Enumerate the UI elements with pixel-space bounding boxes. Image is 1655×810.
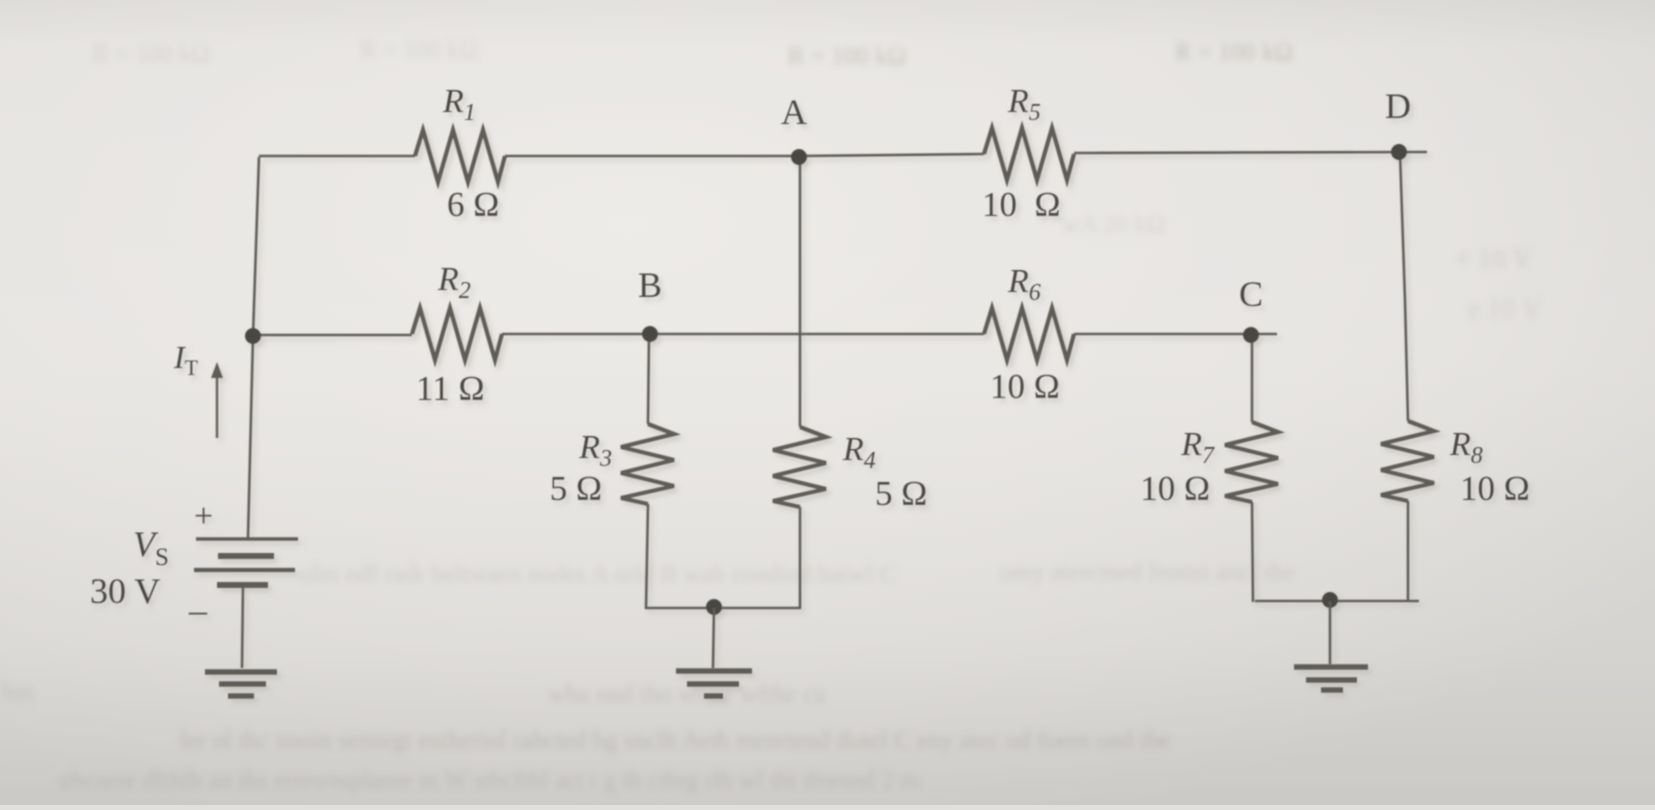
svg-text:+: +: [194, 498, 213, 535]
svg-text:R = 100 kΩ: R = 100 kΩ: [360, 37, 478, 64]
svg-text:omy aterctned fromn ancl the: omy aterctned fromn ancl the: [1000, 559, 1294, 586]
svg-text:10 Ω: 10 Ω: [990, 367, 1060, 406]
wire: stub from right bottom junction down to ground: [1329, 601, 1332, 664]
wire: right bottom rail joining R7 and R8 branches: [1255, 600, 1419, 603]
node B: [642, 326, 658, 342]
ground (battery): [205, 672, 277, 696]
resistor R6: [984, 308, 1074, 360]
resistor R2: [412, 308, 502, 360]
svg-text:+ 10 V: + 10 V: [1455, 244, 1533, 275]
svg-text:B: B: [638, 265, 662, 305]
svg-text:R = 100 kΩ: R = 100 kΩ: [92, 41, 210, 68]
svg-text:R = 100 kΩ: R = 100 kΩ: [1175, 39, 1293, 66]
wire: battery − terminal down to ground: [242, 585, 243, 668]
wire: middle rail right segment (R6 to node C): [1074, 333, 1277, 336]
svg-text:ehcame dfthlb an ths erresrnqd: ehcame dfthlb an ths erresrnqdanse tn W …: [60, 767, 920, 794]
svg-text:ler ol thc nnoin sennrgt enthe: ler ol thc nnoin sennrgt entheriol rahct…: [180, 727, 1170, 754]
wire: R7 bottom to right bottom rail: [1252, 502, 1253, 602]
svg-text:10 Ω: 10 Ω: [982, 185, 1061, 224]
wire: stub from mid bottom junction down to ground: [713, 608, 714, 668]
wire: vertical branch from node B down to R3: [648, 335, 649, 424]
svg-text:10 Ω: 10 Ω: [1140, 469, 1210, 508]
wire: middle rail left segment (left rail to R2): [253, 334, 412, 337]
svg-text:5 Ω: 5 Ω: [550, 469, 602, 508]
ground (right, below R7/R8): [1294, 667, 1368, 690]
resistor R7: [1225, 422, 1278, 502]
svg-text:ulm odf radr beltwaen nodes A: ulm odf radr beltwaen nodes A orld B wah…: [300, 561, 896, 588]
resistor R3: [621, 424, 674, 504]
resistor R8: [1381, 421, 1434, 501]
junction: mid bottom rail to ground: [706, 599, 722, 615]
wire: vertical branch from node C down to R7: [1251, 336, 1254, 422]
junction: right bottom rail to ground: [1322, 592, 1338, 608]
resistor R5: [984, 128, 1074, 180]
voltage source Vs 30 V (battery): [194, 539, 298, 585]
wire: R3 bottom to mid bottom rail: [646, 504, 648, 609]
wire: top rail middle segment (R1 to node A to R5): [505, 154, 984, 156]
resistor R4: [773, 427, 826, 507]
svg-text:6 Ω: 6 Ω: [447, 185, 499, 224]
wire: top rail right segment (R5 to node D): [1074, 152, 1427, 153]
wire: mid bottom rail joining R3 and R4 branches: [645, 607, 801, 610]
current arrow IT: [211, 362, 223, 438]
wire: vertical branch from node A down to R4: [799, 157, 802, 427]
wire: middle rail segment (R2 through node B, crossing over node-A wire, to R6): [502, 333, 984, 336]
svg-text:R = 100 kΩ: R = 100 kΩ: [788, 43, 906, 70]
svg-text:wA 20 kΩ: wA 20 kΩ: [1062, 211, 1165, 238]
svg-text:5 Ω: 5 Ω: [875, 474, 927, 513]
node D: [1391, 144, 1407, 160]
svg-text:30 V: 30 V: [90, 571, 160, 611]
resistor R1: [415, 130, 505, 182]
svg-text:11 Ω: 11 Ω: [416, 369, 484, 408]
node A: [791, 149, 807, 165]
ground (mid, below R3/R4): [676, 671, 752, 696]
svg-text:hm: hm: [2, 679, 35, 706]
wire: left vertical rail from top-left corner down to battery + terminal: [248, 157, 259, 538]
wire: R8 bottom to right bottom rail: [1407, 501, 1410, 601]
wire: R4 bottom to mid bottom rail: [799, 507, 802, 609]
svg-text:e 10 V: e 10 V: [1468, 294, 1542, 325]
node C: [1243, 327, 1259, 343]
wire: top rail left segment (corner to R1): [259, 155, 415, 158]
wire: vertical branch from node D down to R8: [1400, 153, 1408, 421]
svg-text:D: D: [1385, 86, 1411, 126]
svg-text:C: C: [1239, 274, 1263, 314]
svg-text:10 Ω: 10 Ω: [1460, 469, 1530, 508]
svg-text:A: A: [781, 92, 807, 132]
svg-text:–: –: [188, 590, 208, 630]
node: left rail / middle rail junction: [245, 328, 261, 344]
